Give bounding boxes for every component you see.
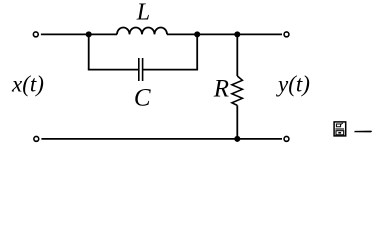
resistor R zigzag (232, 76, 243, 105)
wire LC loop bottom left (88, 69, 139, 71)
caption figure-1 glyph tu bottom box (336, 131, 344, 135)
wire resistor bottom stub (236, 105, 238, 138)
terminal output bottom (284, 136, 289, 141)
caption figure-1 glyph tu inner top box (336, 123, 343, 127)
wire LC loop right vertical (196, 34, 198, 69)
wire LC loop left vertical (88, 34, 90, 69)
wire LC loop bottom right (143, 69, 198, 71)
caption figure-1 glyph tu outer box (334, 122, 346, 136)
svg-text:R: R (213, 76, 229, 103)
caption figure-1 glyph tu middle bar (335, 128, 344, 130)
wire bottom rail (41, 138, 282, 140)
capacitor C plate left (138, 58, 140, 81)
caption figure-1 glyph yi bar (354, 131, 372, 133)
svg-text:C: C (134, 84, 151, 111)
wire resistor top stub (236, 34, 238, 76)
svg-text:L: L (136, 0, 150, 26)
caption figure-1 glyph tu bottom inner dot (338, 132, 341, 134)
svg-text:y(t): y(t) (276, 72, 310, 97)
wire top rail left (41, 33, 117, 35)
capacitor C plate right (142, 58, 144, 81)
terminal input top (33, 32, 38, 37)
node junction dot bottom of R (234, 136, 240, 142)
svg-text:x(t): x(t) (11, 72, 44, 97)
terminal input bottom (34, 136, 39, 141)
inductor L (117, 28, 167, 35)
node junction dot right of LC (194, 31, 200, 37)
node junction dot top of R (234, 31, 240, 37)
wire top rail mid (167, 33, 282, 35)
terminal output top (284, 32, 289, 37)
node junction dot left of LC (86, 31, 92, 37)
